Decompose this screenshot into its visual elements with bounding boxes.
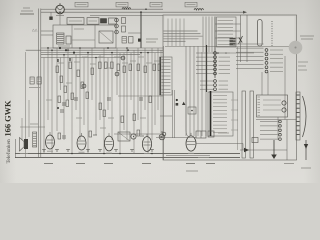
wire (130, 53, 132, 100)
resistor (111, 62, 114, 69)
dial glass inner edge (165, 45, 295, 47)
wire y116 (160, 115, 172, 117)
wire (193, 46, 195, 136)
dial cord line (183, 19, 185, 47)
wire (202, 17, 204, 53)
coil can box 1 (67, 18, 84, 25)
tube label (142, 163, 151, 165)
osc box inner wire (72, 39, 95, 41)
switch row wire (236, 68, 264, 70)
resistor (129, 64, 132, 71)
resistor (77, 70, 80, 77)
switch bank S2 bar (210, 91, 212, 136)
tube label (44, 163, 53, 165)
resistor (99, 62, 102, 69)
switch contact (162, 85, 171, 87)
switch contact (213, 120, 227, 122)
wire heavy x141 (140, 12, 142, 48)
wire osc to switch 1 (215, 23, 241, 25)
wire bus y52 (41, 52, 163, 54)
node (95, 57, 97, 59)
value label (74, 61, 80, 63)
switch contact (218, 33, 234, 35)
dial cord dotted line (272, 21, 273, 22)
cluster resistor (58, 96, 61, 103)
wire vert x268 (267, 72, 269, 95)
wire (43, 58, 45, 154)
resistor R1 hatched (30, 77, 34, 84)
wire (71, 58, 73, 154)
switch contact (213, 95, 227, 97)
node bus (47, 47, 49, 49)
switch contact (162, 78, 171, 80)
coil former hatched (57, 33, 65, 44)
resistor (103, 110, 106, 117)
resistor (121, 116, 124, 123)
value label (82, 56, 88, 58)
wire (67, 48, 69, 100)
switch contact K2 (200, 88, 214, 90)
resistor (91, 68, 94, 75)
coil can box 2 (87, 18, 99, 25)
wire (56, 48, 58, 131)
wire (79, 48, 81, 140)
part number box 4 (185, 2, 197, 7)
coil can box 3 (109, 18, 117, 24)
label outside right (300, 35, 314, 37)
wire top bus 3 (90, 14, 163, 16)
wire pair a (172, 90, 174, 138)
switch contact (213, 124, 227, 126)
wire bottom bus 1 (15, 153, 240, 155)
node (103, 153, 105, 155)
wire bus y48 (41, 47, 163, 49)
wire vert x237 (237, 47, 239, 150)
ground lead (273, 140, 275, 155)
resistor (99, 103, 102, 110)
wire r2 (240, 149, 287, 151)
resistor (149, 96, 152, 103)
value label (90, 63, 96, 65)
wire (119, 53, 121, 154)
speaker (24, 139, 28, 149)
footnote text (186, 170, 198, 172)
ground arrow (271, 155, 277, 160)
switch contact (162, 72, 171, 74)
wire (133, 50, 135, 153)
contact left (260, 138, 278, 140)
tube V4 EL11 (142, 137, 151, 152)
wire (99, 55, 101, 120)
switch contact (213, 128, 227, 130)
small box (252, 138, 258, 143)
wire bus y57 (41, 57, 122, 59)
wire curve to tube (186, 90, 190, 138)
rail R2 (250, 91, 253, 158)
wire (201, 52, 203, 136)
switch contact R (265, 49, 268, 52)
wire (157, 48, 159, 110)
field coil (33, 132, 37, 147)
switch contact K (196, 60, 214, 62)
wire (185, 46, 187, 136)
node (140, 52, 142, 54)
switch contact (162, 62, 171, 64)
ground (66, 149, 70, 151)
value label (106, 67, 112, 69)
ground (86, 149, 90, 151)
node (111, 52, 113, 54)
coil L5 (194, 9, 204, 11)
tube V4 grid parts (137, 130, 140, 136)
wire vert x247 (246, 15, 248, 62)
pointer arrow (239, 36, 243, 44)
wire (47, 48, 49, 120)
wire bus y96 (118, 95, 163, 97)
wire osc to switch 2 (215, 30, 241, 32)
switch row wire (236, 55, 264, 57)
switch bank S2 box (208, 92, 233, 136)
node (151, 153, 153, 155)
ground (114, 149, 118, 151)
part number box 2 (116, 2, 128, 7)
tube V5 AZ11 (186, 136, 196, 151)
wire (137, 48, 139, 120)
switch contact R (265, 66, 268, 69)
trimmer box (99, 31, 113, 43)
switch contact K2 (200, 80, 214, 82)
resistor stack 2 (122, 26, 126, 32)
capacitor C2 (49, 17, 52, 20)
wire bus y54 (41, 54, 140, 56)
wire (107, 58, 109, 111)
switch contact (213, 117, 227, 119)
wire top bus 1 (41, 8, 56, 10)
wire vert x163b (163, 46, 165, 160)
switch row wire (236, 43, 264, 45)
trimmer stack circle 2 (115, 24, 119, 28)
label right column (298, 61, 308, 63)
switch contact (162, 68, 171, 70)
switch contact (213, 132, 227, 134)
switch contact (162, 88, 171, 90)
wire (197, 46, 199, 136)
note text block top-left (23, 7, 30, 9)
switch contact (218, 37, 234, 39)
label antenna parts (29, 87, 41, 89)
wire (205, 52, 207, 136)
switch contact (162, 75, 171, 77)
wire (87, 53, 89, 154)
wire (160, 50, 162, 140)
value label (108, 117, 114, 119)
pilot circle A (282, 101, 286, 105)
wire y53 link (212, 52, 254, 54)
contact left (260, 129, 278, 131)
switch contact (218, 30, 234, 32)
oscillator coil assembly box (53, 25, 116, 48)
rail R1 (242, 91, 245, 158)
padder box 1 (122, 37, 127, 44)
drive pulley disc (289, 41, 303, 55)
switch contact (218, 40, 234, 42)
resistor R2 hatched (37, 77, 41, 84)
svg-text:△△: △△ (32, 28, 39, 32)
value label (154, 60, 160, 62)
wire osc link 2 (41, 34, 53, 36)
dial station names text (164, 30, 198, 32)
cap stub (50, 12, 52, 16)
resistor (123, 66, 126, 73)
strip down arrow (305, 140, 307, 160)
resistor (137, 64, 140, 71)
trimmer stack circle 3 (115, 30, 119, 34)
wire (126, 48, 128, 140)
switch row wire (236, 47, 264, 49)
switch contact (162, 82, 171, 84)
switch row wire (236, 51, 264, 53)
wire y33 (128, 32, 141, 34)
dial cord line (167, 19, 169, 47)
value label (146, 62, 152, 64)
wire bottom bus 2 (15, 157, 240, 159)
rectifier disc (159, 134, 165, 140)
capacitor (139, 97, 143, 99)
osc box divider 2 (94, 25, 96, 48)
contact strip A (296, 92, 300, 140)
contact left (260, 125, 278, 127)
resistor (56, 66, 59, 73)
resistor (60, 76, 63, 83)
label dial lamp (56, 15, 64, 17)
switch contact R (265, 53, 268, 56)
wire (60, 58, 62, 91)
pilot circle B (282, 108, 286, 112)
switch ladder upper box (217, 17, 237, 47)
wire (116, 48, 118, 95)
switch row wire (236, 59, 264, 61)
switch bank S1 box (160, 57, 173, 95)
switch contact (213, 102, 227, 104)
resistor (158, 64, 161, 71)
capacitor (74, 97, 78, 99)
node (119, 153, 121, 155)
grid cap (115, 72, 119, 76)
switch contact R (265, 62, 268, 65)
wire (151, 48, 153, 140)
wire osc link 1 (41, 30, 53, 32)
switch contact (218, 23, 234, 25)
capacitor dark (176, 103, 179, 106)
switch contact K (196, 56, 214, 58)
resistor stack 1 (122, 18, 126, 24)
switch bank S1 bar (159, 57, 161, 95)
wire (103, 48, 105, 154)
wire (91, 48, 93, 100)
dial cord line (179, 19, 181, 47)
wire frame left end (14, 139, 16, 158)
osc box divider 1 (71, 25, 73, 48)
schematic title Telefunken 166 GWK (rotated) (4, 100, 13, 164)
switch contact K2 (200, 84, 214, 86)
tube label (76, 163, 85, 165)
pot circle (131, 134, 136, 139)
tube V2 grid parts (89, 131, 92, 137)
transformer T2 (118, 132, 130, 141)
ground (98, 149, 102, 151)
svg-text:Telefunken: Telefunken (5, 139, 12, 163)
label bottom right (284, 163, 294, 165)
wire antenna rail (25, 52, 27, 157)
tube label (186, 163, 195, 165)
label osc (74, 28, 84, 30)
value label (114, 56, 120, 58)
dial pointer dark ticks (230, 38, 236, 40)
wire (123, 53, 125, 130)
wire vert x240 (240, 15, 242, 62)
dial glass area (165, 16, 295, 46)
value label (98, 56, 104, 58)
switch contact (162, 65, 171, 67)
mains transformer box (257, 95, 288, 117)
resistor (144, 66, 147, 73)
switch contact (213, 113, 227, 115)
tube V1 grid parts (58, 133, 61, 139)
tube V2 EBF11 (77, 136, 86, 150)
wire t3 (166, 155, 210, 157)
cluster cap (60, 109, 64, 111)
output transformer (196, 131, 206, 138)
capacitor (107, 97, 111, 99)
value label (130, 60, 136, 62)
part number box 3 (150, 2, 162, 7)
dial pointer slot (258, 20, 263, 47)
arrow top bus (243, 11, 247, 14)
wire antenna rail 2 (28, 100, 30, 137)
wire x22 (21, 118, 23, 140)
switch contact R (265, 57, 268, 60)
capacitor block C4 (101, 19, 107, 23)
tube V5 label (198, 157, 209, 159)
S2 labels (231, 99, 238, 101)
wire (144, 48, 146, 110)
speaker label (20, 153, 28, 155)
tube V1 ECH11 (46, 135, 55, 149)
tube label (206, 163, 215, 165)
wire (189, 46, 191, 136)
switch contact (218, 43, 234, 45)
switch contact (213, 106, 227, 108)
wire (75, 55, 77, 110)
ground (55, 149, 59, 151)
coil humps L3 (122, 8, 131, 9)
wire osc to switch 3 (215, 37, 241, 39)
wire t1 (114, 133, 160, 135)
contact left (260, 121, 278, 123)
wire t2b (196, 143, 243, 145)
value label (58, 62, 64, 64)
switch contact (213, 98, 227, 100)
wire (111, 53, 113, 140)
tube V3 EF11 (104, 136, 113, 151)
choke box (208, 131, 214, 137)
part number box 1 (75, 2, 88, 7)
node dark (57, 107, 59, 109)
value label (122, 62, 128, 64)
wire (95, 58, 97, 136)
wire heavy x215 (214, 17, 216, 79)
node (79, 47, 81, 49)
node (71, 153, 73, 155)
value label (46, 99, 52, 101)
wire pair b (174, 90, 176, 138)
trimmer stack circle 1 (115, 18, 119, 22)
coil former 2 (66, 36, 71, 44)
switch contact R (265, 70, 268, 73)
value label (138, 56, 144, 58)
wire (147, 53, 149, 154)
switch contact K (196, 73, 214, 75)
switch contact (162, 92, 171, 94)
wire (140, 53, 142, 135)
wire (83, 58, 85, 126)
wire (205, 17, 207, 53)
node top wire (140, 11, 142, 13)
wire vert x262 (261, 72, 263, 95)
socket box (188, 107, 196, 114)
resistor (81, 82, 84, 89)
warning triangle (182, 102, 185, 105)
chassis outline box (163, 15, 297, 160)
resistor (105, 62, 108, 69)
wire r3 (286, 120, 288, 161)
node (126, 47, 128, 49)
label left (30, 123, 38, 125)
resistor (153, 64, 156, 71)
capacitor (62, 102, 66, 104)
dial lamp LP (56, 5, 65, 14)
wire vert x278 (277, 117, 279, 140)
value label (76, 117, 82, 119)
switch contact K (196, 68, 214, 70)
switch contact K (196, 52, 214, 54)
resistor (117, 64, 120, 71)
switch contact (162, 59, 171, 61)
wire vert x285 (284, 56, 286, 120)
wire (63, 55, 65, 140)
node (51, 49, 53, 51)
value label (66, 82, 72, 84)
wire y127 (20, 126, 45, 128)
wire t2 (156, 137, 196, 139)
wire mains rail a (38, 9, 40, 158)
dial cord line (171, 19, 173, 47)
strip label (301, 167, 311, 169)
grid cap (82, 84, 86, 88)
resistor (133, 114, 136, 121)
arrow on wire r2 (244, 148, 249, 152)
padder box 2 (129, 37, 134, 44)
switch contact (218, 20, 234, 22)
switch contact K (196, 64, 214, 66)
wire bus y50 (26, 49, 163, 51)
node (59, 11, 61, 13)
label rf (146, 38, 158, 40)
switch contact (213, 109, 227, 111)
label out (218, 132, 229, 134)
wire (51, 50, 53, 153)
switch shaft dark bar (206, 45, 208, 92)
